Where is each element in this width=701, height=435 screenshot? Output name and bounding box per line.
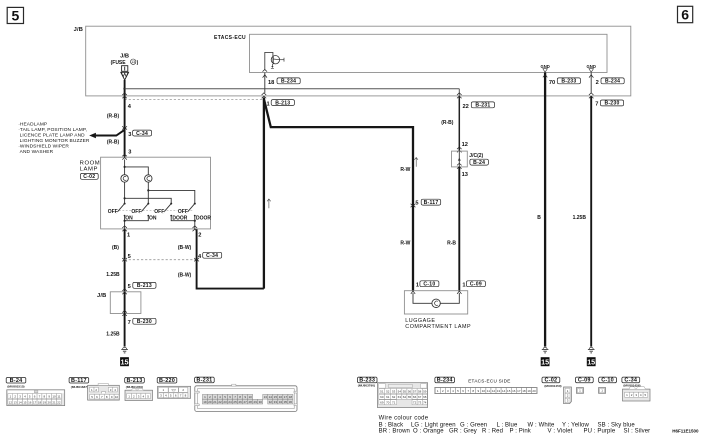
svg-text:1: 1 <box>416 282 419 288</box>
arrow inside J/C <box>458 158 461 161</box>
svg-text:15: 15 <box>541 357 549 366</box>
svg-text:55: 55 <box>403 390 407 394</box>
connector B-234 ETACS-ECU side <box>435 377 538 394</box>
svg-text:18: 18 <box>522 389 526 393</box>
svg-text:22: 22 <box>463 104 469 110</box>
svg-text:Wire colour code: Wire colour code <box>379 415 429 421</box>
wire B-213 vertical trunk <box>263 98 265 289</box>
connector crossing J/C bottom <box>457 163 462 168</box>
svg-text:33: 33 <box>274 400 278 404</box>
ground triangle 2 <box>589 69 594 73</box>
svg-text:19: 19 <box>527 389 531 393</box>
svg-text:B-213: B-213 <box>137 283 152 289</box>
svg-text:B-234: B-234 <box>437 378 454 384</box>
connector crossing room lamp bottom pin2 <box>193 226 198 231</box>
svg-text:13: 13 <box>497 389 501 393</box>
svg-text:54: 54 <box>398 390 402 394</box>
svg-text:(MU801687): (MU801687) <box>71 385 88 389</box>
connector crossing lower J/B top <box>122 289 127 294</box>
svg-text:58: 58 <box>418 390 422 394</box>
wire ground B thick <box>544 73 546 347</box>
connector crossing ETACS bottom pin18 <box>263 70 268 72</box>
annotation headlamp list <box>18 122 90 156</box>
wire through lower J/B <box>124 292 126 314</box>
arrow head to headlamp systems <box>89 133 96 139</box>
node fuse junction <box>123 88 125 90</box>
wire ETACS pin2 drop <box>590 73 592 93</box>
svg-text:12: 12 <box>462 142 468 148</box>
switch SW4 OFF/DOOR <box>178 203 212 222</box>
svg-text:21: 21 <box>213 400 217 404</box>
svg-text:20: 20 <box>48 400 52 404</box>
lamp L1 room lamp bulb <box>121 175 129 183</box>
svg-text:1.25B: 1.25B <box>106 332 120 338</box>
wire fuse feed drop to pin 22 <box>458 89 460 96</box>
svg-text:71: 71 <box>392 401 396 405</box>
connector label B-24 <box>470 159 489 166</box>
wire branch to headlamp systems <box>95 130 125 136</box>
pin 1 B-213 label <box>267 100 295 108</box>
wire through J/C <box>458 151 460 167</box>
svg-text:70: 70 <box>386 401 390 405</box>
svg-text:11: 11 <box>487 389 490 393</box>
svg-text:69: 69 <box>380 401 384 405</box>
svg-text:·TAIL LAMP, POSITION LAMP,: ·TAIL LAMP, POSITION LAMP, <box>18 127 87 133</box>
connector C-34 pin 5 mark <box>122 258 127 261</box>
svg-text:B-230: B-230 <box>137 319 152 325</box>
svg-text:C-10: C-10 <box>601 378 614 384</box>
svg-text:7: 7 <box>128 320 131 326</box>
connector crossing room lamp bottom pin1 <box>122 226 127 231</box>
svg-text:34: 34 <box>279 400 283 404</box>
connector C-09 <box>575 377 593 393</box>
svg-text:36: 36 <box>289 400 293 404</box>
svg-text:OFF: OFF <box>108 209 118 215</box>
svg-text:10: 10 <box>249 395 253 399</box>
svg-text:17: 17 <box>284 395 288 399</box>
pin 5 B-213 label <box>128 282 156 290</box>
junction block J/B lower box <box>110 292 141 314</box>
svg-text:35: 35 <box>284 400 288 404</box>
svg-text:B-220: B-220 <box>159 378 175 384</box>
svg-text:C-09: C-09 <box>578 378 591 384</box>
svg-text:64: 64 <box>403 395 407 399</box>
svg-text:52: 52 <box>386 390 390 394</box>
wire (R-B) down to arrow branch <box>124 96 126 157</box>
svg-text:6: 6 <box>681 7 689 23</box>
connector label C-02 <box>80 173 98 180</box>
ground left <box>121 347 128 353</box>
pin 7 B-230 label right <box>595 100 623 108</box>
entry arrow C-10 <box>411 291 415 294</box>
svg-text:63: 63 <box>398 395 402 399</box>
svg-text:B-117: B-117 <box>424 200 439 206</box>
svg-text:72: 72 <box>413 401 417 405</box>
joint connector J/C(2) B-24 box <box>452 151 468 167</box>
svg-text:27: 27 <box>243 400 247 404</box>
svg-text:B-234: B-234 <box>281 79 296 85</box>
node lamp2 branch <box>147 189 149 191</box>
svg-text:·HEADLAMP: ·HEADLAMP <box>18 122 47 128</box>
svg-text:B-24: B-24 <box>10 378 23 384</box>
wire R-B to luggage lamp <box>458 167 460 291</box>
junction block J/B box <box>86 26 631 96</box>
svg-text:19: 19 <box>203 400 207 404</box>
svg-text:21: 21 <box>52 400 56 404</box>
ganged switch dashed link <box>119 210 193 212</box>
svg-text:67: 67 <box>418 395 422 399</box>
connector B-24 <box>6 377 65 405</box>
wire room lamp feed <box>124 160 126 175</box>
arrow up beside trunk <box>267 199 271 208</box>
connector B-213 <box>125 377 153 400</box>
svg-text:(R-B): (R-B) <box>441 120 454 126</box>
svg-text:(B-W): (B-W) <box>178 245 192 251</box>
pin 1 C-10 label <box>416 281 439 289</box>
svg-text:10: 10 <box>52 395 56 399</box>
svg-text:B-231: B-231 <box>475 103 490 109</box>
connector crossing at J/B bottom x=124.6 <box>122 93 127 98</box>
connector crossing at J/B bottom x=591.2 <box>589 93 594 98</box>
ground right 2 <box>588 347 595 353</box>
svg-text:57: 57 <box>413 390 417 394</box>
lamp L2 room lamp bulb <box>145 175 152 182</box>
svg-text:17: 17 <box>33 400 37 404</box>
svg-text:B-213: B-213 <box>127 378 143 384</box>
switch SW3 OFF/DOOR <box>154 203 188 222</box>
connector B-117 <box>69 377 119 400</box>
svg-text:C-02: C-02 <box>545 378 558 384</box>
connector crossing J/C top <box>457 147 462 152</box>
transistor Q1 inside ETACS <box>265 52 284 70</box>
svg-text:(FUSE: (FUSE <box>111 60 127 66</box>
switch SW1 OFF/ON <box>107 203 133 222</box>
wire pin22 to J/C <box>458 96 460 151</box>
wire ground 1.25B <box>590 96 592 346</box>
svg-text:22: 22 <box>57 400 61 404</box>
svg-text:66: 66 <box>413 395 417 399</box>
ground right 1 <box>542 347 549 353</box>
svg-text:1.25B: 1.25B <box>106 272 120 278</box>
svg-text:13: 13 <box>131 60 135 64</box>
svg-text:B-234: B-234 <box>605 79 620 85</box>
svg-text:13: 13 <box>264 395 268 399</box>
wire feed to switch 4 <box>148 190 195 203</box>
svg-text:24: 24 <box>228 400 232 404</box>
svg-text:10: 10 <box>482 389 486 393</box>
svg-text:B : BlackLG : Light greenG : G: B : BlackLG : Light greenG : GreenL : Bl… <box>379 423 636 429</box>
svg-text:B: B <box>537 215 541 221</box>
svg-text:DOOR: DOOR <box>196 216 211 222</box>
svg-text:GND: GND <box>587 64 596 69</box>
arrow up pin70 <box>543 75 547 78</box>
node switch output join right <box>194 220 196 222</box>
svg-text:74: 74 <box>423 401 427 405</box>
svg-text:R-B: R-B <box>447 241 456 247</box>
node lamp1 branch <box>124 197 126 199</box>
switch SW2 OFF/ON <box>131 203 157 222</box>
svg-text:13: 13 <box>462 172 468 178</box>
entry arrow C-09 <box>457 291 461 294</box>
svg-text:B-230: B-230 <box>604 101 619 107</box>
svg-text:C-02: C-02 <box>83 174 95 180</box>
pin 7 B-230 label <box>128 318 156 326</box>
svg-text:60: 60 <box>380 395 384 399</box>
svg-text:65: 65 <box>408 395 412 399</box>
svg-text:19: 19 <box>43 400 47 404</box>
wire luggage lamp left lead <box>413 293 432 303</box>
arrow up pin18 <box>263 75 267 78</box>
svg-text:29: 29 <box>254 400 258 404</box>
legend wire colour code <box>379 415 651 434</box>
pin 5 B-117 label <box>415 199 440 206</box>
svg-text:OFF: OFF <box>154 209 164 215</box>
svg-text:5: 5 <box>415 201 418 207</box>
wire lamp2 bottom <box>147 182 149 203</box>
svg-text:J/B: J/B <box>97 293 106 299</box>
svg-text:7: 7 <box>595 102 598 108</box>
dashed connector line B-213 top <box>125 98 264 100</box>
svg-text:56: 56 <box>408 390 412 394</box>
svg-text:70: 70 <box>549 80 555 86</box>
svg-text:COMPARTMENT LAMP: COMPARTMENT LAMP <box>405 324 471 330</box>
svg-text:18: 18 <box>268 80 274 86</box>
svg-text:13: 13 <box>14 400 18 404</box>
svg-text:26: 26 <box>238 400 242 404</box>
ground number 15 left <box>120 357 129 366</box>
node lamp feed junction <box>124 166 126 168</box>
svg-text:(B): (B) <box>112 245 119 251</box>
ETACS-ECU box U1 <box>250 34 608 72</box>
svg-text:ETACS-ECU SIDE: ETACS-ECU SIDE <box>468 378 510 383</box>
svg-text:B-233: B-233 <box>359 378 375 384</box>
label LUGGAGE COMPARTMENT LAMP <box>405 318 471 330</box>
wire luggage lamp right lead <box>440 293 459 303</box>
svg-text:(MU803790): (MU803790) <box>358 384 375 388</box>
connector C-10 <box>599 377 617 393</box>
svg-text:1: 1 <box>267 102 270 108</box>
page number 6 <box>678 6 693 22</box>
svg-text:1: 1 <box>127 233 130 239</box>
fuse F13 symbol <box>121 66 129 80</box>
svg-text:1.25B: 1.25B <box>573 215 587 221</box>
dashed connector line C-34 <box>125 259 197 261</box>
svg-text:AND WASHER: AND WASHER <box>18 149 53 155</box>
svg-text:15: 15 <box>587 357 595 366</box>
pin 70 B-233 label <box>549 78 581 86</box>
svg-text:LICENCE PLATE LAMP AND: LICENCE PLATE LAMP AND <box>18 133 85 139</box>
wire ETACS pin18 drop <box>264 73 266 93</box>
connector B-220 <box>157 377 190 398</box>
svg-text:15: 15 <box>274 395 278 399</box>
svg-text:·WINDSHIELD WIPER: ·WINDSHIELD WIPER <box>18 144 69 150</box>
svg-text:59: 59 <box>423 390 427 394</box>
svg-text:C-10: C-10 <box>423 282 435 288</box>
svg-text:15: 15 <box>23 400 27 404</box>
svg-text:68: 68 <box>423 395 427 399</box>
ground number 15 mid <box>541 357 550 366</box>
svg-text:BR : BrownO : OrangeGR : GreyR: BR : BrownO : OrangeGR : GreyR : RedP : … <box>379 429 651 435</box>
svg-text:23: 23 <box>223 400 227 404</box>
svg-text:15: 15 <box>507 389 511 393</box>
connector C-34 <box>622 377 650 401</box>
ground number 15 right <box>587 357 596 366</box>
wire switch2 output <box>125 216 149 221</box>
svg-text:C-34: C-34 <box>624 378 637 384</box>
connector crossing at J/B bottom x=459.3 <box>457 93 462 98</box>
wire to lamp 2 <box>125 167 149 175</box>
connector label C-34 <box>133 130 152 137</box>
svg-text:B-24: B-24 <box>473 160 485 166</box>
svg-text:16: 16 <box>279 395 283 399</box>
svg-text:LIGHTING MONITOR BUZZER: LIGHTING MONITOR BUZZER <box>18 138 90 144</box>
svg-text:16: 16 <box>28 400 32 404</box>
svg-text:18: 18 <box>38 400 42 404</box>
svg-text:J/C(2): J/C(2) <box>469 153 483 159</box>
wire fuse output drop <box>124 80 126 96</box>
svg-text:J/B: J/B <box>120 54 129 60</box>
wire lamp1 bottom <box>124 182 126 203</box>
svg-text:15: 15 <box>121 357 129 366</box>
node switch output join left <box>124 220 126 222</box>
connector C-34 pin 4 mark <box>194 258 199 261</box>
connector C-02 <box>542 377 571 404</box>
wire 1.25B to ground <box>124 314 126 347</box>
svg-text:3: 3 <box>128 132 131 138</box>
svg-text:62: 62 <box>392 395 396 399</box>
svg-text:10: 10 <box>115 395 119 399</box>
svg-text:ETACS-ECU: ETACS-ECU <box>214 35 246 41</box>
wire switch1 output <box>124 216 126 229</box>
pin 18 B-234 label <box>268 78 300 86</box>
ground triangle 1 <box>543 69 548 73</box>
svg-text:B-117: B-117 <box>71 378 87 384</box>
wire B-213 branch to luggage feed <box>264 99 413 291</box>
svg-text:B-231: B-231 <box>196 378 212 384</box>
svg-text:J/B: J/B <box>74 27 83 33</box>
svg-text:14: 14 <box>502 389 506 393</box>
svg-text:25: 25 <box>233 400 237 404</box>
svg-text:32: 32 <box>269 400 273 404</box>
svg-text:(R-B): (R-B) <box>107 140 120 146</box>
svg-text:12: 12 <box>9 400 13 404</box>
pin 1 C-09 label <box>462 281 485 289</box>
svg-text:14: 14 <box>269 395 273 399</box>
svg-text:(B-W): (B-W) <box>178 273 192 279</box>
svg-text:GND: GND <box>540 64 549 69</box>
svg-text:2: 2 <box>596 80 599 86</box>
wire fuse feed horizontal <box>125 88 460 90</box>
svg-text:30: 30 <box>259 400 263 404</box>
connector B-231 <box>195 377 297 411</box>
svg-text:5: 5 <box>128 254 131 260</box>
svg-text:5: 5 <box>12 8 20 24</box>
room lamp box <box>101 157 211 229</box>
svg-text:1: 1 <box>462 282 465 288</box>
luggage compartment lamp box <box>404 291 467 314</box>
svg-text:OFF: OFF <box>178 209 188 215</box>
svg-text:73: 73 <box>418 401 422 405</box>
label ROOM LAMP <box>80 160 101 172</box>
pin 2 B-234 label <box>596 78 625 86</box>
wire pin1 (B) <box>124 229 126 292</box>
svg-text:C-34: C-34 <box>136 131 148 137</box>
svg-text:R-W: R-W <box>400 241 410 247</box>
svg-text:20: 20 <box>532 389 536 393</box>
fuse F13 label (FUSE 13) <box>111 59 139 66</box>
pin 22 B-231 label <box>463 102 495 110</box>
svg-text:(MU801450): (MU801450) <box>544 384 561 388</box>
wire switch4 output <box>194 216 196 229</box>
svg-text:53: 53 <box>392 390 396 394</box>
svg-text:17: 17 <box>517 389 521 393</box>
svg-text:16: 16 <box>512 389 516 393</box>
page number 5 <box>7 7 23 23</box>
arrow up beside R-W wire <box>414 158 418 167</box>
svg-text:B-233: B-233 <box>561 79 576 85</box>
wire pin2 (B-W) <box>197 229 264 288</box>
lamp L3 luggage bulb <box>432 299 440 307</box>
svg-text:11: 11 <box>57 395 60 399</box>
svg-text:(MU801515): (MU801515) <box>7 385 24 389</box>
svg-text:20: 20 <box>208 400 212 404</box>
connector C-34 pin 3 mark <box>122 126 127 129</box>
svg-text:B-213: B-213 <box>275 100 290 106</box>
connector crossing at J/B bottom x=263.9 <box>262 93 267 98</box>
connector label C-34 lower <box>203 252 222 259</box>
connector B-233 <box>357 377 427 407</box>
arrow up pin2 <box>589 75 593 78</box>
svg-text:ON: ON <box>149 216 157 222</box>
svg-text:61: 61 <box>386 395 390 399</box>
svg-text:R-W: R-W <box>400 167 410 173</box>
svg-text:28: 28 <box>249 400 253 404</box>
svg-text:18: 18 <box>289 395 293 399</box>
svg-text:(R-B): (R-B) <box>107 114 120 120</box>
svg-text:14: 14 <box>18 400 22 404</box>
svg-text:51: 51 <box>380 390 384 394</box>
svg-text:12: 12 <box>492 389 496 393</box>
svg-text:C-34: C-34 <box>206 253 218 259</box>
svg-text:OFF: OFF <box>131 209 141 215</box>
svg-text:3: 3 <box>128 149 131 155</box>
wire feed to switch 3 <box>125 198 172 203</box>
svg-text:LUGGAGE: LUGGAGE <box>405 318 435 324</box>
svg-text:5: 5 <box>128 284 131 290</box>
svg-text:LAMP: LAMP <box>80 166 98 172</box>
connector crossing room lamp top <box>122 154 127 159</box>
connector B-117 pin 5 mark <box>411 204 416 207</box>
svg-text:C-09: C-09 <box>470 282 482 288</box>
svg-text:H6F11E1500: H6F11E1500 <box>672 428 699 433</box>
svg-text:22: 22 <box>218 400 222 404</box>
svg-text:2: 2 <box>198 233 201 239</box>
connector crossing lower J/B bottom <box>122 311 127 316</box>
wire switch3 output <box>171 216 195 221</box>
